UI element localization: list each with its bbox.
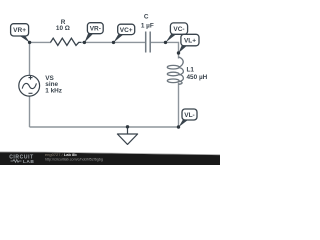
node ground junction dot: [126, 125, 129, 128]
voltage source plus sign: [29, 76, 33, 80]
flag VR+ box: [11, 24, 29, 36]
svg-text:VR+: VR+: [13, 27, 26, 34]
svg-text:1 µF: 1 µF: [141, 22, 154, 29]
svg-text:VR-: VR-: [90, 26, 101, 33]
flag VC- box: [170, 23, 187, 34]
resistor R zigzag: [51, 38, 82, 45]
wire bottom: [30, 126, 179, 128]
node VR- junction dot: [83, 41, 86, 44]
svg-text:http://circuitlab.com/c/hddhf5: http://circuitlab.com/c/hddhf5zf6g6g: [45, 157, 103, 161]
footer bar: [0, 152, 220, 165]
svg-text:VL+: VL+: [184, 37, 196, 44]
ground triangle: [117, 134, 137, 144]
flag VC+ box: [118, 24, 135, 34]
svg-text:10 Ω: 10 Ω: [56, 25, 70, 32]
svg-text:LAB: LAB: [23, 159, 34, 165]
wire inductor to bottom-right corner: [178, 83, 180, 128]
flag VR- box: [87, 23, 103, 34]
svg-text:C: C: [144, 14, 149, 21]
flag VL- pointer: [179, 120, 189, 127]
svg-text:1 kHz: 1 kHz: [45, 87, 62, 94]
svg-text:450 µH: 450 µH: [187, 74, 208, 81]
node VL+ junction dot: [177, 51, 180, 54]
svg-text:VC+: VC+: [120, 27, 133, 34]
flag VL+ box: [181, 34, 199, 46]
flag VR- pointer: [84, 33, 93, 42]
svg-text:L1: L1: [187, 67, 195, 74]
footer logo wave: [11, 160, 22, 163]
voltage source VS circle: [19, 75, 40, 96]
capacitor C plates: [145, 32, 147, 53]
wire left vertical lower: [29, 96, 31, 127]
flag VC+ pointer: [114, 34, 125, 43]
wire capacitor to top-right corner: [150, 42, 178, 58]
voltage source minus sign: [29, 92, 33, 94]
flag VL- box: [182, 109, 197, 120]
flag VR+ pointer: [19, 35, 30, 42]
ground stub: [127, 127, 129, 134]
svg-text:eng0727 / Lab 8b: eng0727 / Lab 8b: [45, 152, 77, 157]
wire top-left to resistor: [30, 41, 52, 43]
node VL- junction dot: [177, 125, 180, 128]
node VC- junction dot: [164, 41, 167, 44]
svg-text:VL-: VL-: [184, 112, 194, 119]
inductor L1 coil: [167, 57, 183, 84]
wire left vertical upper: [29, 42, 31, 75]
wire resistor to capacitor: [81, 41, 146, 43]
svg-text:VC-: VC-: [173, 26, 184, 33]
node VC+ junction dot: [112, 41, 115, 44]
node VR+ junction dot: [28, 41, 31, 44]
voltage source sine symbol: [22, 83, 36, 88]
flag VC- pointer: [166, 34, 177, 43]
flag VL+ pointer: [179, 46, 188, 54]
